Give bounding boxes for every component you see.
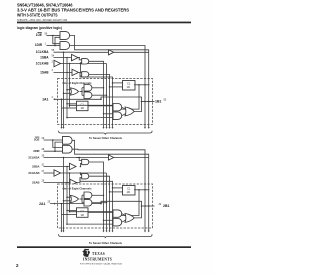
buffer on CLKBA long line (triangle) xyxy=(75,155,149,160)
wire 1DIR to upper AND gate input xyxy=(55,37,60,45)
AND gate clocked-select 1 xyxy=(78,57,104,79)
svg-text:1OE: 1OE xyxy=(36,33,42,37)
svg-text:logic diagram (positive logic): logic diagram (positive logic) xyxy=(17,25,63,30)
title line 1 xyxy=(17,3,73,8)
svg-text:1D: 1D xyxy=(127,190,130,194)
wire 1DIR input xyxy=(47,45,61,47)
wire output mux up and left to A line xyxy=(101,201,142,218)
wire 2OE to lower AND gate input xyxy=(53,140,63,147)
channel detail box (One of Eight Channels), byte 2 xyxy=(58,184,153,228)
wire 2OE input xyxy=(44,139,63,141)
wire 1CLKBA with bus drop junction xyxy=(54,51,76,53)
net 2OE active-low output enable, pin 29 xyxy=(34,137,45,142)
wire upper AND output routed down and right xyxy=(72,140,149,184)
svg-text:1B1: 1B1 xyxy=(155,100,161,104)
junction on 1DIR wire xyxy=(54,45,56,47)
svg-text:1DIR: 1DIR xyxy=(35,43,43,47)
svg-text:4: 4 xyxy=(52,96,54,99)
buffer on CLKBA long line (triangle) xyxy=(75,50,149,55)
AND gate clocked-select 2 xyxy=(77,173,113,184)
wire CLKAB tap to AND gate 2 xyxy=(80,173,81,175)
AND gate clocked-select 2 xyxy=(79,72,113,79)
wire left register output xyxy=(88,105,114,107)
svg-text:2CLKBA: 2CLKBA xyxy=(28,156,39,160)
net 2CLKBA clock B-to-A, pin 30 xyxy=(28,154,44,159)
svg-text:2B1: 2B1 xyxy=(163,204,169,208)
svg-text:C1: C1 xyxy=(80,102,84,106)
svg-text:WITH 3-STATE OUTPUTS: WITH 3-STATE OUTPUTS xyxy=(17,13,58,18)
buffer 1SBA (triangle) xyxy=(72,54,79,60)
wire 1SAB with junctions xyxy=(54,72,73,74)
AND gate output mux lower, byte 2 xyxy=(66,219,121,226)
svg-text:2SBA: 2SBA xyxy=(32,165,39,169)
brace to seven other channels xyxy=(59,234,153,238)
buffer 1SAB (triangle) xyxy=(72,69,79,75)
AND gate output mux upper, byte 1 xyxy=(69,104,122,111)
wire output mux up and left to A line xyxy=(101,97,142,112)
wire right register output to output mux xyxy=(113,84,150,109)
arrowheads to seven other channels xyxy=(61,127,150,129)
svg-text:31: 31 xyxy=(42,163,45,166)
net 2CLKAB clock A-to-B, pin 27 xyxy=(28,170,44,175)
svg-text:1D: 1D xyxy=(80,213,83,217)
wire lower AND output routed up to right enable rail xyxy=(70,46,145,79)
wire 2B1 xyxy=(142,205,155,207)
wire 1A1 with arrowhead into channel xyxy=(54,98,102,100)
section heading: logic diagram (positive logic) xyxy=(17,25,63,30)
wire 1OE to lower AND gate input xyxy=(53,36,60,44)
net 2DIR direction control, pin 28 xyxy=(33,148,45,153)
svg-text:1SBA: 1SBA xyxy=(40,56,49,60)
register C1/1D A-to-B storage, byte 1 xyxy=(77,101,89,111)
svg-text:INSTRUMENTS: INSTRUMENTS xyxy=(83,256,112,261)
net 2SAB select A-to-B, pin 26 xyxy=(32,179,45,184)
caption To Seven Other Channels xyxy=(89,241,122,245)
svg-text:28: 28 xyxy=(42,148,45,151)
mid bus rails through channel box xyxy=(104,79,113,128)
AND gate clocked-select 1 xyxy=(76,157,104,184)
AND gate output mux lower, byte 1 xyxy=(66,112,121,119)
svg-text:1: 1 xyxy=(45,42,47,45)
svg-text:25: 25 xyxy=(48,200,51,203)
caption To Seven Other Channels xyxy=(89,136,122,140)
svg-text:1SAB: 1SAB xyxy=(40,70,49,74)
svg-text:55: 55 xyxy=(52,49,55,52)
net 1A1 data A pin, pin 4 xyxy=(42,96,53,101)
bus vertical drops from control rows xyxy=(64,52,70,78)
svg-text:1D: 1D xyxy=(127,85,130,89)
svg-text:1CLKAB: 1CLKAB xyxy=(36,62,49,66)
AND gate output mux upper, byte 2 xyxy=(69,210,122,217)
brace to seven other channels xyxy=(59,131,153,135)
AND gate output-enable A-direction (upper) xyxy=(62,136,72,144)
svg-text:2OE: 2OE xyxy=(34,138,40,142)
junction on 2OE wire xyxy=(52,139,54,141)
buffer 2CLKAB (triangle) xyxy=(44,170,107,184)
svg-text:53: 53 xyxy=(164,98,167,101)
AND gate output-enable A-direction (upper) xyxy=(60,32,70,40)
svg-text:C1: C1 xyxy=(80,209,84,213)
register C1/1D A-to-B storage, byte 2 xyxy=(77,208,89,218)
TI logo symbol xyxy=(82,249,90,257)
OR gate output combiner, byte 1 xyxy=(122,107,135,116)
wires left register inputs xyxy=(62,103,77,108)
svg-text:2: 2 xyxy=(52,60,54,63)
net 1SBA select B-to-A, pin 54 xyxy=(40,54,55,59)
net 1B1 data B pin, pin 53 xyxy=(155,98,167,103)
title line 2 xyxy=(17,8,129,13)
wire 2CLKBA with bus drop junction xyxy=(44,157,76,159)
AND gate output-enable B-direction (lower) xyxy=(62,145,72,153)
svg-text:29: 29 xyxy=(42,137,45,140)
right enable rails through channel box xyxy=(145,79,149,128)
wire 1SBA with junction xyxy=(54,57,72,59)
AND gate A-B mux lower xyxy=(82,199,107,206)
net 1SAB select A-to-B, pin 3 xyxy=(40,69,53,74)
svg-text:26: 26 xyxy=(42,179,45,182)
arrowheads to seven other channels xyxy=(61,231,150,233)
svg-text:2DIR: 2DIR xyxy=(33,149,39,153)
net 2A1 data A pin, pin 25 xyxy=(39,200,51,205)
AND gate A-B mux upper xyxy=(82,85,104,92)
footer rule xyxy=(17,246,191,248)
svg-text:1D: 1D xyxy=(80,106,83,110)
buffer 2SBA (triangle) xyxy=(70,163,77,169)
mid bus rails through channel box xyxy=(104,184,113,231)
OR gate select combiner (left) xyxy=(63,88,79,95)
svg-text:32: 32 xyxy=(159,203,162,206)
svg-text:SCBS237B – APRIL 1994 – REVISE: SCBS237B – APRIL 1994 – REVISED JANUARY … xyxy=(17,18,67,22)
wire 2DIR to upper AND gate input xyxy=(55,142,63,151)
AND gate A-B mux lower xyxy=(82,92,107,99)
wire CLKAB tap to AND gate 2 xyxy=(80,64,81,73)
wire upper AND output routed down and right xyxy=(70,36,149,79)
register C1/1D B-to-A storage, byte 1 xyxy=(123,81,136,91)
bus vertical drops from control rows xyxy=(64,158,70,185)
svg-text:POST OFFICE BOX 655303 • DALLA: POST OFFICE BOX 655303 • DALLAS, TEXAS 7… xyxy=(80,262,123,265)
wires left register inputs xyxy=(62,210,77,215)
wire lower AND output routed up to right enable rail xyxy=(72,149,145,184)
net 1OE active-low output enable, pin 56 xyxy=(36,32,48,37)
document number line xyxy=(17,18,67,22)
left bus rails through channel box xyxy=(62,184,70,231)
svg-text:56: 56 xyxy=(45,32,48,35)
svg-text:2: 2 xyxy=(16,263,19,268)
wire 1OE input xyxy=(47,35,61,37)
wire right register output to output mux xyxy=(113,189,150,215)
page number xyxy=(16,263,19,268)
net 2SBA select B-to-A, pin 31 xyxy=(32,163,45,168)
AND gate output-enable B-direction (lower) xyxy=(60,42,70,50)
net 1DIR direction control, pin 1 xyxy=(35,42,47,47)
TI logo text TEXAS xyxy=(92,251,105,256)
svg-text:To Seven Other Channels: To Seven Other Channels xyxy=(89,136,122,140)
buffer 2SAB (triangle) xyxy=(70,179,77,185)
wire OR output split to mux AND pair xyxy=(80,195,83,203)
svg-text:To Seven Other Channels: To Seven Other Channels xyxy=(89,241,122,245)
svg-text:2A1: 2A1 xyxy=(39,202,45,206)
svg-text:2SAB: 2SAB xyxy=(32,181,39,185)
TI logo text INSTRUMENTS xyxy=(83,256,112,261)
OR gate output combiner, byte 2 xyxy=(122,214,135,223)
header rule xyxy=(17,22,191,24)
AND gate A-B mux upper xyxy=(82,192,104,199)
wire left register output xyxy=(88,211,114,213)
svg-text:30: 30 xyxy=(42,154,45,157)
svg-text:1A1: 1A1 xyxy=(42,98,48,102)
address line xyxy=(80,262,123,265)
wire OR output split to mux AND pair xyxy=(80,88,83,96)
net 1CLKBA clock B-to-A, pin 55 xyxy=(36,49,55,54)
svg-text:1CLKBA: 1CLKBA xyxy=(36,50,49,54)
svg-text:3: 3 xyxy=(52,69,54,72)
junction on 2DIR wire xyxy=(54,150,56,152)
net 2B1 data B pin, pin 32 xyxy=(159,203,170,208)
wire 2SAB with junctions xyxy=(44,182,73,184)
wire 2DIR input xyxy=(44,150,63,152)
wire 2SBA with junction xyxy=(44,166,72,168)
right enable rails through channel box xyxy=(145,184,149,231)
wire 2A1 with arrowhead into channel xyxy=(50,203,102,205)
wire 1B1 xyxy=(142,101,155,103)
channel detail box (One of Eight Channels), byte 1 xyxy=(58,79,153,125)
svg-text:54: 54 xyxy=(52,54,55,57)
register C1/1D B-to-A storage, byte 2 xyxy=(123,186,136,196)
wires right register inputs xyxy=(109,82,123,88)
buffer 1CLKAB (triangle) xyxy=(54,60,107,78)
OR gate select combiner (left) xyxy=(63,195,79,202)
left bus rails through channel box xyxy=(62,79,70,128)
junction on 1OE wire xyxy=(52,35,54,37)
svg-text:2CLKAB: 2CLKAB xyxy=(28,171,39,175)
wires right register inputs xyxy=(109,187,123,193)
svg-text:27: 27 xyxy=(42,170,45,173)
net 1CLKAB clock A-to-B, pin 2 xyxy=(36,60,54,65)
title line 3 xyxy=(17,13,58,18)
